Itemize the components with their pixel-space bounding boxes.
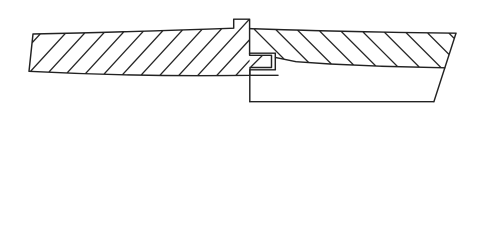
carrier left edge xyxy=(249,70,251,102)
right panel top edge xyxy=(250,29,456,34)
lip section hatch line xyxy=(251,56,263,68)
carrier bottom edge xyxy=(250,101,434,103)
right panel underside at joint xyxy=(250,52,276,54)
left panel outline (tab on top, lip at bottom right) xyxy=(29,19,272,75)
layer boundary line under hatched top layer xyxy=(275,57,445,67)
right panel section hatching (135deg) xyxy=(243,18,488,80)
groove shelf xyxy=(250,69,275,71)
groove inner wall xyxy=(274,53,276,70)
carrier top edge xyxy=(250,74,278,76)
left panel section hatching (45deg) xyxy=(18,8,336,85)
right panel / carrier slanted right edge xyxy=(434,33,456,102)
